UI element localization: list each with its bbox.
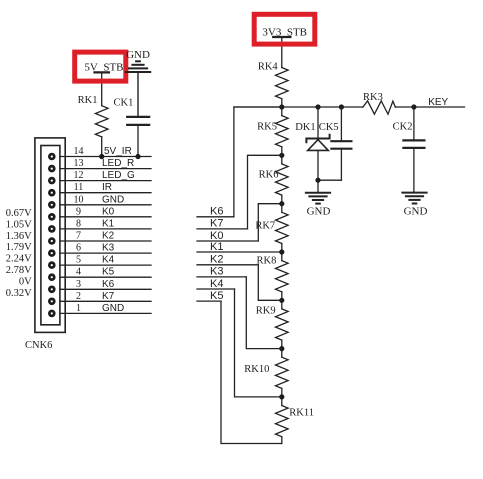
capacitor CK1 [114,98,150,157]
junction node chain y300.3 [279,298,284,303]
svg-text:CK1: CK1 [114,98,134,109]
svg-text:RK5: RK5 [257,122,277,133]
wire node A horizontal [234,106,363,108]
svg-text:2: 2 [76,291,81,302]
svg-text:1.05V: 1.05V [6,219,32,230]
svg-text:LED_R: LED_R [102,158,134,169]
svg-text:K2: K2 [102,231,115,242]
svg-text:RK11: RK11 [289,408,314,419]
svg-text:DK1: DK1 [295,122,315,133]
svg-text:K5: K5 [210,290,223,302]
wire tap net K7 [197,155,282,229]
resistor RK8 [257,252,289,300]
svg-text:K4: K4 [210,278,223,290]
svg-text:K1: K1 [102,218,115,229]
svg-text:9: 9 [76,206,81,217]
wire tap net K1 [197,241,282,253]
svg-text:5: 5 [76,255,81,266]
svg-text:0.32V: 0.32V [6,288,32,299]
svg-text:7: 7 [76,231,81,242]
resistor RK5 [257,107,288,155]
junction node chain y155.3 [279,153,284,158]
resistor RK6 [259,155,288,203]
wire tap net K3 [197,266,282,349]
svg-text:1.79V: 1.79V [6,242,32,253]
junction RK1 to 5V_IR [99,154,104,159]
svg-text:K3: K3 [102,243,115,254]
svg-text:4: 4 [76,267,81,278]
connector CNK6 inner body [41,146,60,325]
svg-text:RK10: RK10 [244,364,269,375]
junction CK1 to 5V_IR [135,154,140,159]
connector pin 6 row net K3 [48,243,151,257]
junction node A chain [279,104,284,109]
svg-text:K7: K7 [102,291,115,302]
junction KEY CK2 [411,104,416,109]
svg-text:K5: K5 [102,267,115,278]
wire tap net K0 [197,204,282,242]
svg-text:GND: GND [307,206,331,218]
svg-text:GND: GND [126,49,150,61]
capacitor CK2 [393,107,425,193]
resistor RK9 [256,300,288,348]
svg-text:RK4: RK4 [258,62,279,73]
svg-text:5V_IR: 5V_IR [104,146,132,157]
junction DK1 top [315,104,320,109]
svg-text:LED_G: LED_G [102,170,135,181]
connector CNK6 outer body [35,138,65,333]
annotation red box around 3V3_STB [254,14,315,44]
connector pin 13 row net LED_R [48,158,151,172]
annotation red box around 5V_STB [75,52,126,81]
connector pin 10 row net GND [48,194,151,208]
junction DK1 bottom [315,178,320,183]
svg-text:CK2: CK2 [393,122,413,133]
svg-text:1: 1 [76,303,81,314]
svg-text:10: 10 [74,194,84,205]
junction node chain y252.0 [279,249,284,254]
connector pin 3 row net K6 [48,279,151,293]
wire tap net K6 [197,107,282,218]
svg-text:RK9: RK9 [256,306,276,317]
connector pin 2 row net K7 [48,291,151,305]
svg-text:8: 8 [76,218,81,229]
wire tap net K2 [197,254,282,301]
zener diode DK1 [295,107,329,193]
ground symbol GND (top, flipped) [126,49,150,117]
svg-text:12: 12 [74,170,84,181]
power symbol 5V_STB [84,61,123,105]
connector pin 11 row net IR [48,182,151,196]
svg-text:RK3: RK3 [363,92,383,103]
svg-text:K2: K2 [210,254,223,266]
connector pin 9 row net K0 [48,206,151,220]
ground symbol GND (under CK2) [402,193,427,218]
connector pin 14 row net 5V_IR [48,146,151,160]
svg-text:K4: K4 [102,255,115,266]
resistor RK11 [276,397,315,444]
svg-text:K6: K6 [102,279,115,290]
svg-text:K3: K3 [210,266,223,278]
resistor RK1 [78,95,108,157]
svg-text:1.36V: 1.36V [6,231,32,242]
connector pin 4 row net K5 [48,267,151,281]
svg-text:K6: K6 [210,206,223,218]
connector pin 12 row net LED_G [48,170,151,184]
connector pin 8 row net K1 [48,218,151,232]
connector pin 1 row net GND [48,303,151,317]
svg-text:13: 13 [74,158,84,169]
wire DK1 CK5 bottom link [318,179,341,181]
svg-text:0.67V: 0.67V [6,208,32,219]
wire tap net K4 [197,278,282,397]
svg-text:CNK6: CNK6 [25,340,52,351]
junction CK5 top [339,104,344,109]
svg-text:6: 6 [76,243,81,254]
wire tap net K5 [197,290,282,444]
svg-text:KEY: KEY [428,97,448,108]
resistor RK4 [258,62,288,108]
svg-text:2.78V: 2.78V [6,265,32,276]
wire net KEY [395,106,464,108]
connector pin 7 row net K2 [48,231,151,245]
svg-text:K0: K0 [102,206,115,217]
svg-text:GND: GND [102,303,124,314]
svg-text:11: 11 [74,182,84,193]
connector pin 5 row net K4 [48,255,151,269]
capacitor CK5 [319,107,352,180]
svg-text:RK8: RK8 [257,256,277,267]
power symbol 3V3_STB [262,27,307,68]
svg-text:K7: K7 [210,218,223,230]
ground symbol GND (under DK1) [306,193,331,218]
junction node chain y348.6 [279,346,284,351]
svg-text:GND: GND [102,194,124,205]
resistor RK3 [363,92,396,114]
svg-text:RK1: RK1 [78,95,98,106]
svg-text:K1: K1 [210,241,223,253]
junction node chain y203.7 [279,201,284,206]
junction node chain y396.9 [279,394,284,399]
resistor RK10 [244,349,288,397]
svg-text:CK5: CK5 [319,122,339,133]
svg-text:2.24V: 2.24V [6,254,32,265]
resistor RK7 [255,204,288,252]
svg-text:14: 14 [74,146,84,157]
svg-text:IR: IR [102,182,112,193]
svg-text:GND: GND [404,206,428,218]
svg-text:3: 3 [76,279,81,290]
svg-text:0V: 0V [19,277,32,288]
